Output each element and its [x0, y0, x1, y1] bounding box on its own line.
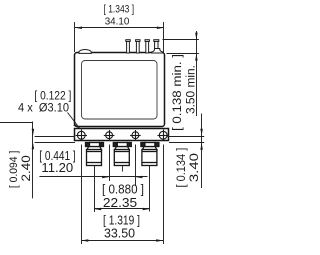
svg-text:34.10: 34.10 — [105, 16, 130, 28]
svg-text:33.50: 33.50 — [104, 226, 135, 240]
svg-text:3.50 min.: 3.50 min. — [185, 65, 197, 114]
svg-text:[ 1.343 ]: [ 1.343 ] — [104, 4, 135, 16]
svg-text:22.35: 22.35 — [103, 195, 137, 210]
svg-text:[ 0.134 ]: [ 0.134 ] — [176, 148, 188, 188]
svg-text:[ 0.138 min. ]: [ 0.138 min. ] — [172, 54, 184, 131]
svg-text:11.20: 11.20 — [41, 160, 73, 175]
svg-text:2.40: 2.40 — [19, 155, 33, 182]
svg-text:3.40: 3.40 — [189, 153, 201, 182]
svg-text:4 x Ø3.10: 4 x Ø3.10 — [18, 100, 69, 114]
svg-text:[ 1.319 ]: [ 1.319 ] — [103, 213, 140, 228]
